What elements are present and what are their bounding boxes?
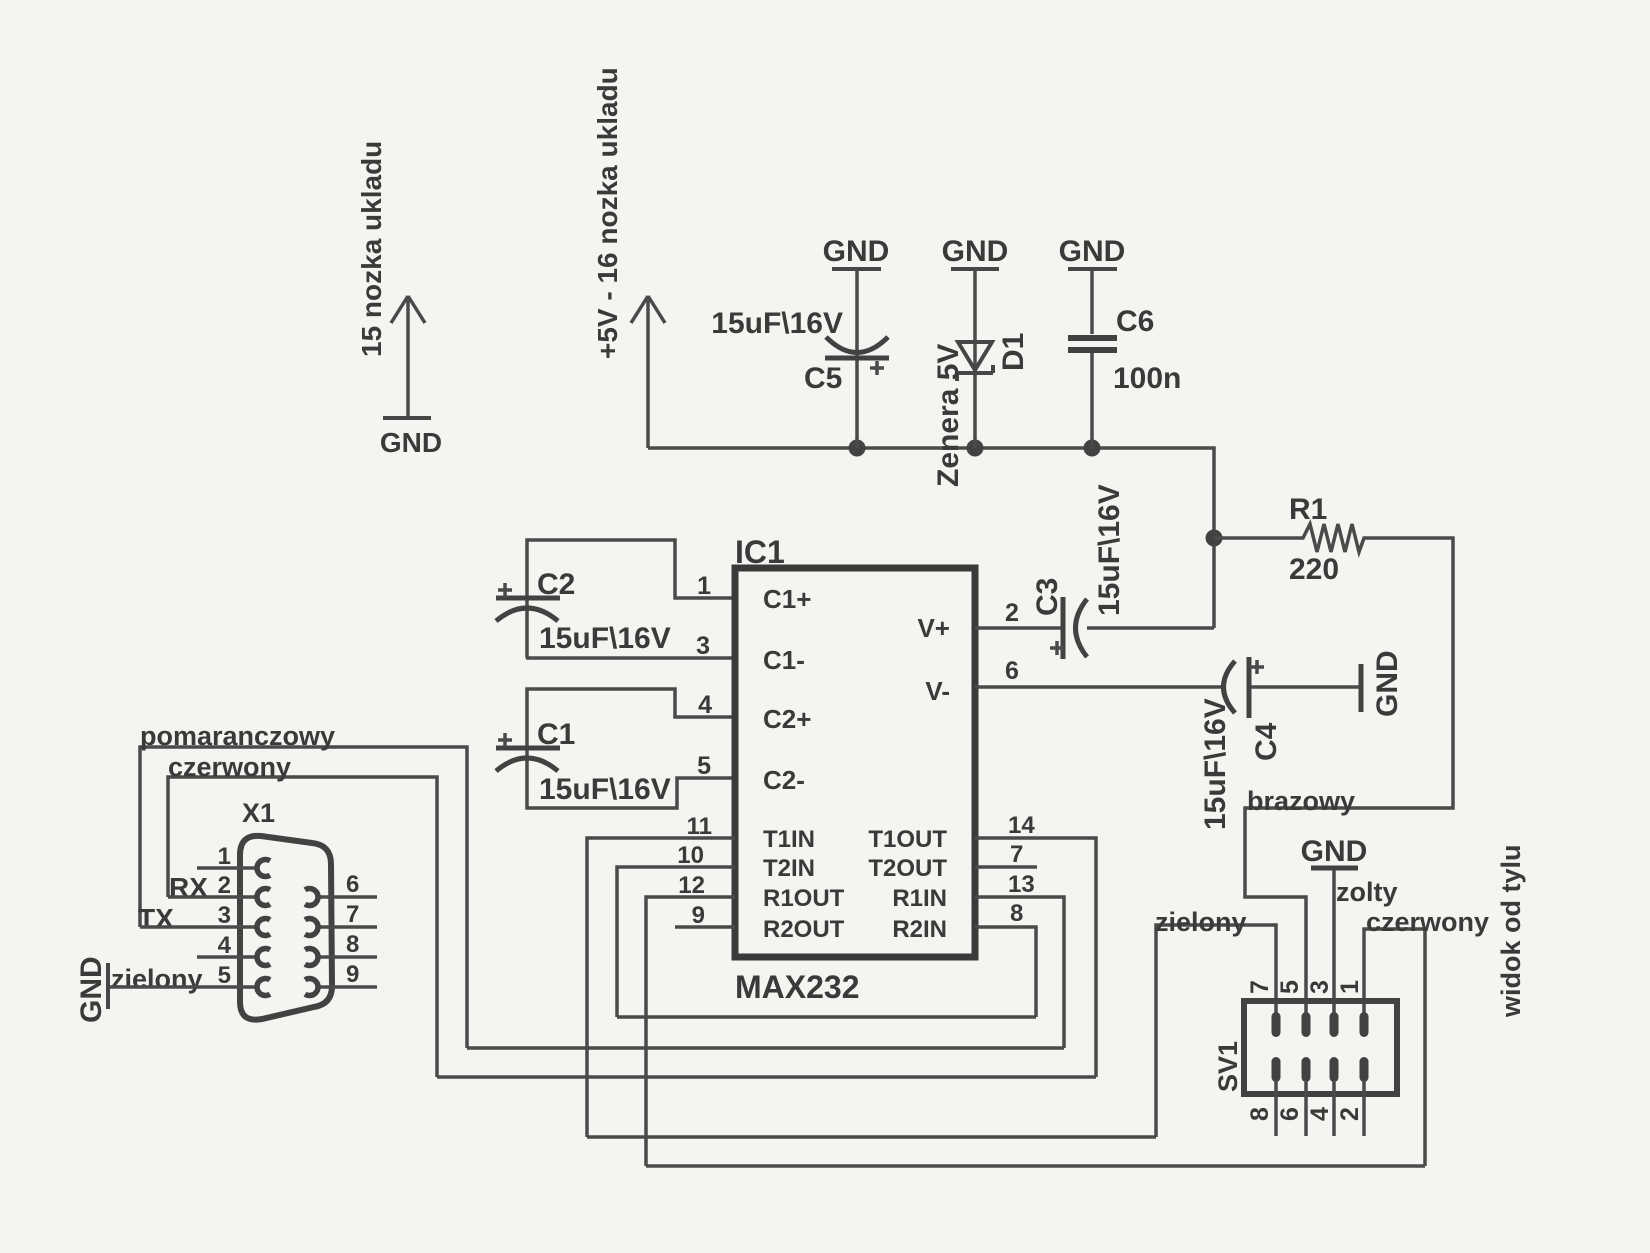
svg-text:R2IN: R2IN bbox=[892, 916, 947, 943]
svg-text:3: 3 bbox=[218, 902, 231, 929]
svg-text:GND: GND bbox=[1301, 835, 1368, 868]
svg-text:C3: C3 bbox=[1031, 578, 1064, 616]
svg-text:6: 6 bbox=[1005, 657, 1019, 685]
svg-text:14: 14 bbox=[1008, 812, 1035, 839]
svg-text:V-: V- bbox=[925, 676, 950, 706]
svg-text:T1IN: T1IN bbox=[763, 826, 815, 853]
svg-text:zielony: zielony bbox=[1155, 907, 1247, 937]
svg-text:15uF\16V: 15uF\16V bbox=[539, 622, 671, 655]
svg-text:C2+: C2+ bbox=[763, 704, 811, 734]
svg-text:7: 7 bbox=[1010, 841, 1023, 868]
svg-text:13: 13 bbox=[1008, 871, 1035, 898]
svg-text:GND: GND bbox=[942, 235, 1009, 268]
svg-text:SV1: SV1 bbox=[1213, 1041, 1243, 1092]
svg-text:5: 5 bbox=[1276, 980, 1304, 994]
svg-text:7: 7 bbox=[346, 901, 359, 928]
svg-text:7: 7 bbox=[1246, 980, 1274, 994]
svg-text:brazowy: brazowy bbox=[1247, 786, 1355, 816]
svg-text:2: 2 bbox=[1336, 1107, 1364, 1121]
svg-text:15uF\16V: 15uF\16V bbox=[711, 307, 843, 340]
svg-text:MAX232: MAX232 bbox=[735, 969, 860, 1005]
svg-text:zielony: zielony bbox=[111, 964, 203, 994]
svg-text:GND: GND bbox=[75, 956, 108, 1023]
svg-text:C2-: C2- bbox=[763, 765, 805, 795]
svg-text:3: 3 bbox=[696, 632, 710, 660]
svg-text:X1: X1 bbox=[242, 798, 275, 828]
svg-text:GND: GND bbox=[823, 235, 890, 268]
svg-text:1: 1 bbox=[218, 843, 231, 870]
svg-text:8: 8 bbox=[1010, 900, 1023, 927]
svg-text:3: 3 bbox=[1306, 980, 1334, 994]
svg-text:R1IN: R1IN bbox=[892, 885, 947, 912]
svg-text:R1OUT: R1OUT bbox=[763, 885, 845, 912]
svg-text:Zenera 5V: Zenera 5V bbox=[932, 344, 965, 487]
svg-text:15uF\16V: 15uF\16V bbox=[539, 773, 671, 806]
svg-text:5: 5 bbox=[697, 752, 711, 780]
svg-text:100n: 100n bbox=[1113, 362, 1181, 395]
svg-text:12: 12 bbox=[678, 872, 705, 899]
svg-text:T2OUT: T2OUT bbox=[868, 855, 947, 882]
svg-text:8: 8 bbox=[346, 931, 359, 958]
svg-text:C1+: C1+ bbox=[763, 584, 811, 614]
svg-text:220: 220 bbox=[1289, 553, 1339, 586]
svg-text:15uF\16V: 15uF\16V bbox=[1093, 484, 1126, 616]
svg-text:R2OUT: R2OUT bbox=[763, 916, 845, 943]
svg-text:11: 11 bbox=[687, 813, 712, 840]
svg-text:C6: C6 bbox=[1116, 305, 1154, 338]
svg-text:D1: D1 bbox=[997, 333, 1030, 371]
svg-text:9: 9 bbox=[346, 961, 359, 988]
svg-text:zolty: zolty bbox=[1336, 877, 1398, 907]
svg-text:TX: TX bbox=[138, 903, 174, 934]
svg-text:1: 1 bbox=[697, 572, 711, 600]
svg-text:GND: GND bbox=[1059, 235, 1126, 268]
svg-text:4: 4 bbox=[1306, 1107, 1334, 1121]
svg-text:czerwony: czerwony bbox=[1366, 907, 1489, 937]
svg-text:6: 6 bbox=[346, 871, 359, 898]
svg-text:8: 8 bbox=[1246, 1107, 1274, 1121]
svg-text:GND: GND bbox=[1371, 650, 1404, 717]
svg-text:1: 1 bbox=[1336, 980, 1364, 994]
svg-text:V+: V+ bbox=[917, 613, 950, 643]
svg-text:C1-: C1- bbox=[763, 645, 805, 675]
svg-text:4: 4 bbox=[698, 691, 712, 719]
svg-text:2: 2 bbox=[1005, 599, 1019, 627]
svg-text:IC1: IC1 bbox=[735, 534, 785, 570]
svg-text:2: 2 bbox=[218, 872, 231, 899]
svg-text:widok od tylu: widok od tylu bbox=[1496, 845, 1526, 1019]
svg-text:C1: C1 bbox=[537, 718, 575, 751]
svg-text:T1OUT: T1OUT bbox=[868, 826, 947, 853]
svg-text:10: 10 bbox=[677, 842, 704, 869]
svg-text:C4: C4 bbox=[1250, 722, 1283, 761]
svg-text:5: 5 bbox=[218, 962, 231, 989]
svg-text:15 nozka ukladu: 15 nozka ukladu bbox=[356, 141, 387, 357]
svg-text:R1: R1 bbox=[1289, 493, 1327, 526]
svg-text:9: 9 bbox=[692, 902, 705, 929]
svg-text:+5V - 16 nozka ukladu: +5V - 16 nozka ukladu bbox=[592, 67, 623, 359]
svg-text:GND: GND bbox=[380, 427, 442, 458]
svg-text:6: 6 bbox=[1276, 1107, 1304, 1121]
svg-text:pomaranczowy: pomaranczowy bbox=[140, 721, 335, 751]
svg-text:C2: C2 bbox=[537, 568, 575, 601]
svg-text:15uF\16V: 15uF\16V bbox=[1199, 698, 1232, 830]
svg-text:T2IN: T2IN bbox=[763, 855, 815, 882]
svg-text:czerwony: czerwony bbox=[168, 752, 291, 782]
svg-text:C5: C5 bbox=[804, 362, 842, 395]
svg-text:4: 4 bbox=[218, 932, 232, 959]
